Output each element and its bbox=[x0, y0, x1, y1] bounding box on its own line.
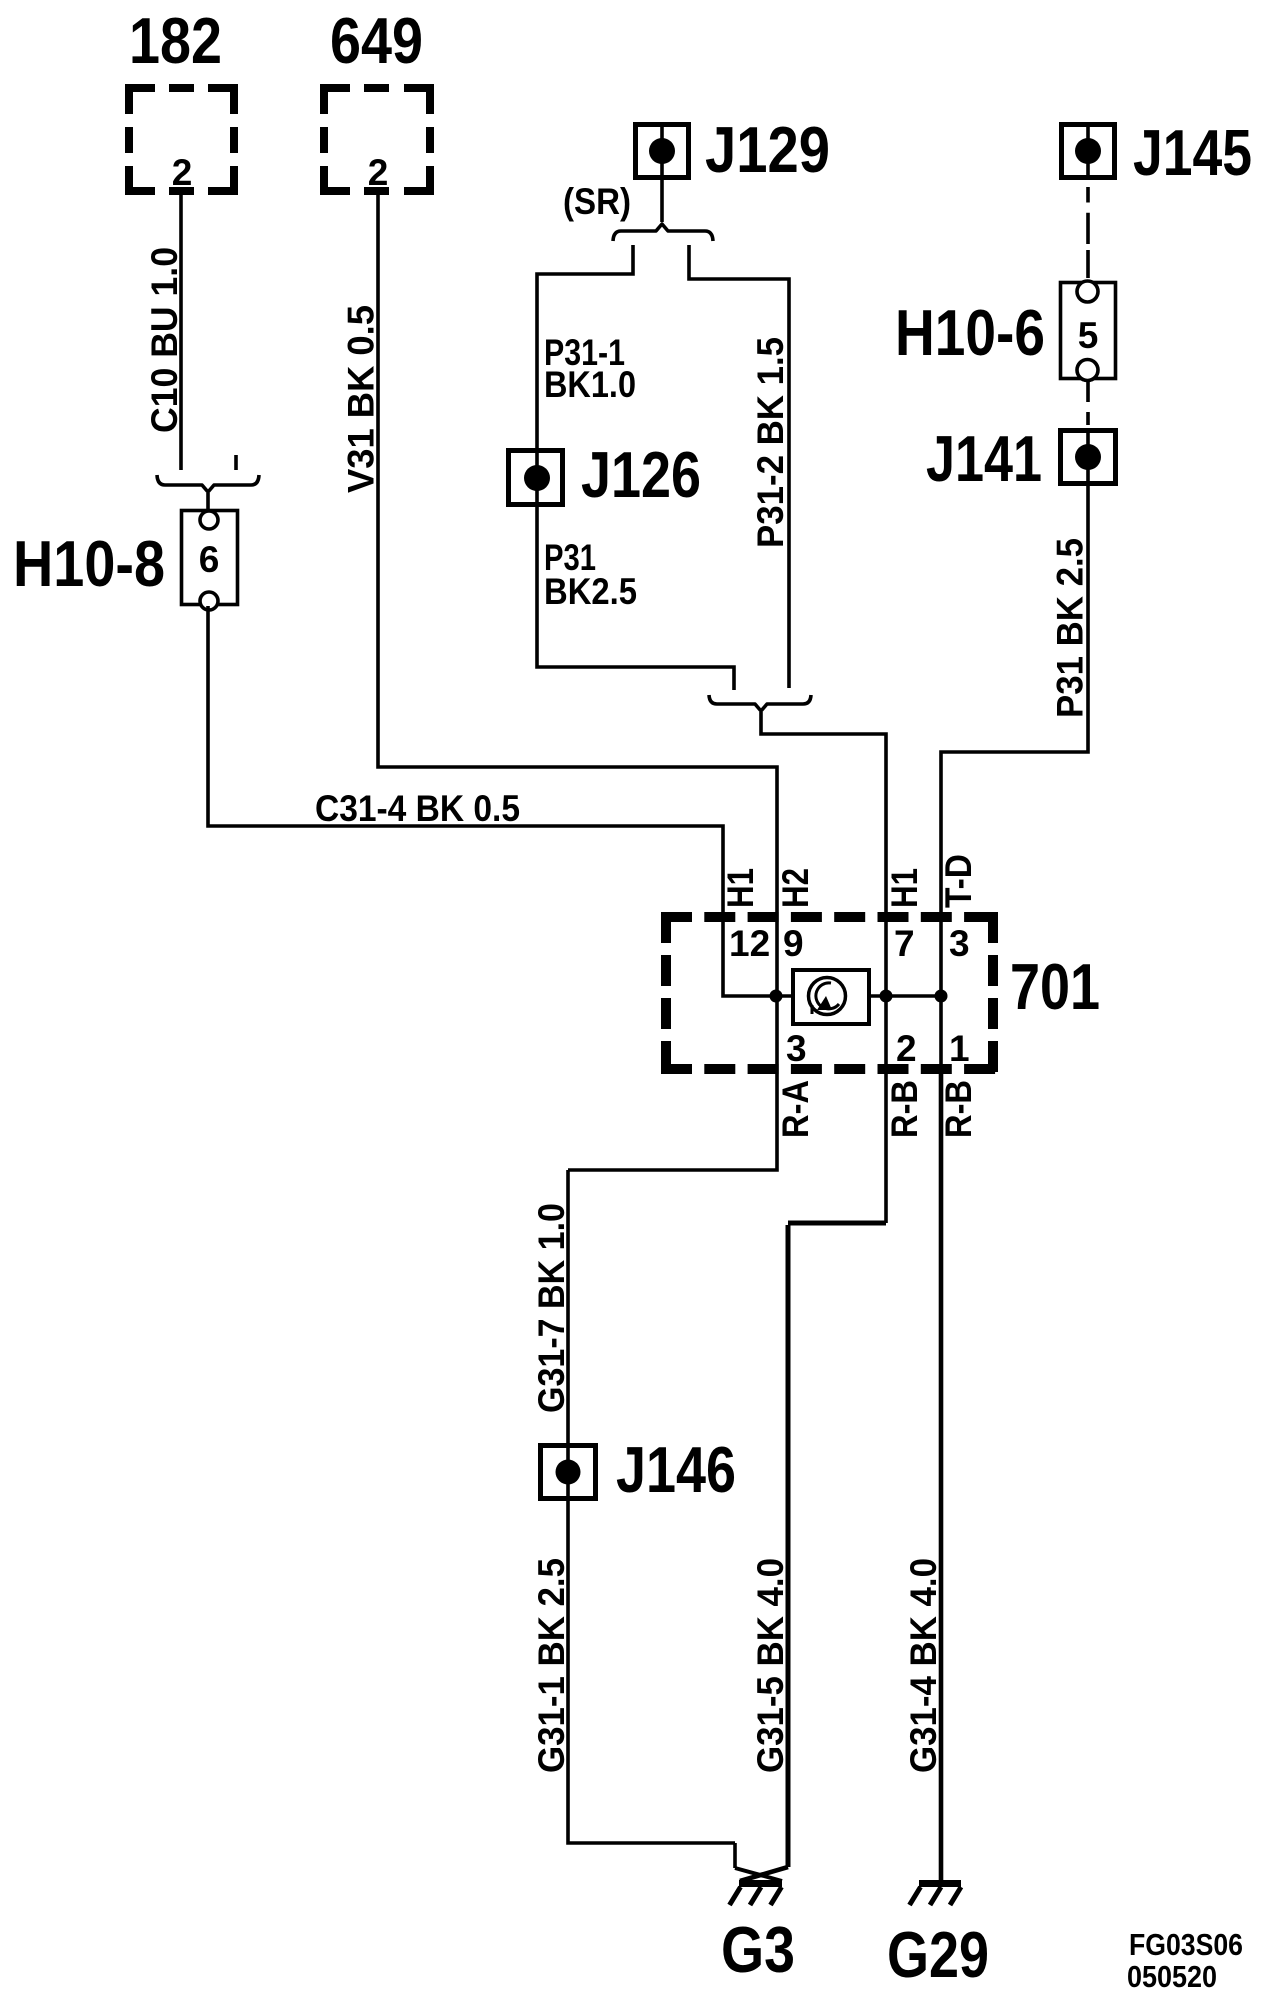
svg-text:T-D: T-D bbox=[938, 854, 979, 908]
splice brace below J129 bbox=[613, 224, 713, 241]
splice J146 dot bbox=[556, 1460, 581, 1485]
connector J141 wire through bbox=[941, 428, 1088, 912]
svg-text:J129: J129 bbox=[705, 113, 830, 186]
connector J145 dot bbox=[1075, 138, 1101, 164]
pin number 7 bbox=[894, 923, 915, 964]
svg-text:BK2.5: BK2.5 bbox=[544, 571, 637, 612]
splice J126 box bbox=[509, 451, 563, 505]
svg-text:G29: G29 bbox=[887, 1918, 989, 1991]
pin label R-A bbox=[775, 1080, 816, 1138]
unit 701 label bbox=[1010, 950, 1100, 1023]
svg-text:H10-8: H10-8 bbox=[13, 527, 165, 600]
fuse H10-8 label bbox=[13, 527, 165, 600]
splice J126 dot bbox=[524, 465, 550, 491]
splice brace above H10-8 bbox=[157, 475, 259, 511]
fuse H10-6 pin number 5 bbox=[1078, 315, 1099, 356]
fuse H10-6 box bbox=[1061, 281, 1116, 381]
junction dot right of lamp bbox=[880, 990, 893, 1003]
svg-text:649: 649 bbox=[330, 4, 423, 77]
svg-text:6: 6 bbox=[199, 539, 220, 580]
pin number 3 bottom bbox=[786, 1028, 807, 1069]
wire label G31-5 BK 4.0 bbox=[750, 1558, 791, 1773]
connector 182 label bbox=[129, 4, 222, 77]
connector 649 dashed box bbox=[324, 88, 430, 191]
unit 701 dashed box bbox=[661, 912, 998, 1074]
svg-text:701: 701 bbox=[1010, 950, 1100, 1023]
pin number 12 bbox=[729, 923, 770, 964]
wire pin 12 to lamp bbox=[723, 912, 776, 996]
dashed wire H10-6 to J141 bbox=[1086, 380, 1090, 425]
svg-text:12: 12 bbox=[729, 923, 770, 964]
junction dot left of lamp bbox=[770, 990, 783, 1003]
wire pin 9 through box bbox=[775, 912, 779, 1074]
wire label V31 BK 0.5 bbox=[341, 305, 382, 493]
splice J129 label bbox=[705, 113, 830, 186]
connector J145 box bbox=[1062, 125, 1115, 178]
svg-text:(SR): (SR) bbox=[563, 181, 631, 222]
wire V31 BK 0.5 bbox=[378, 195, 777, 912]
svg-text:3: 3 bbox=[949, 923, 970, 964]
fuse H10-6 label bbox=[895, 296, 1045, 369]
pin label T-D bbox=[938, 854, 979, 908]
splice J129 wire through bbox=[660, 127, 664, 222]
stub wire entering splice brace at H10-8 bbox=[234, 455, 238, 470]
pin number 1 bottom bbox=[949, 1028, 970, 1069]
splice J129 box bbox=[636, 125, 689, 178]
svg-text:G31-4 BK 4.0: G31-4 BK 4.0 bbox=[903, 1558, 944, 1773]
wire label P31-1 BK 1.0 bbox=[544, 332, 636, 405]
svg-text:H1: H1 bbox=[720, 868, 761, 908]
svg-text:2: 2 bbox=[172, 152, 193, 193]
lamp symbol box bbox=[793, 970, 869, 1024]
wire P31-2 BK 1.5 bbox=[689, 245, 789, 688]
wire label P31 BK 2.5 right bbox=[1050, 538, 1091, 718]
wire P31-1 BK 1.0 bbox=[537, 245, 633, 448]
splice J146 label bbox=[616, 1433, 736, 1506]
svg-text:C10 BU 1.0: C10 BU 1.0 bbox=[144, 247, 185, 433]
pin number 9 bbox=[783, 923, 804, 964]
svg-text:J145: J145 bbox=[1133, 116, 1252, 189]
splice J129 dot bbox=[649, 138, 675, 164]
lamp feed wires inside 701 bbox=[776, 994, 941, 998]
svg-text:182: 182 bbox=[129, 4, 222, 77]
label (SR) bbox=[563, 181, 631, 222]
footer code FG03S06 bbox=[1129, 1927, 1243, 1962]
svg-text:G31-5 BK 4.0: G31-5 BK 4.0 bbox=[750, 1558, 791, 1773]
pin 2 of connector 182 bbox=[172, 152, 193, 193]
wire label G31-7 BK 1.0 bbox=[531, 1203, 572, 1413]
wire pin 3 top through box bbox=[939, 912, 943, 1074]
wire G31-4 BK 4.0 bbox=[939, 1074, 944, 1881]
svg-text:2: 2 bbox=[368, 152, 389, 193]
pin label R-B right bbox=[938, 1080, 979, 1138]
splice brace above 701 bbox=[709, 695, 886, 912]
connector J145 wire through bbox=[1086, 127, 1090, 180]
svg-text:5: 5 bbox=[1078, 315, 1099, 356]
wire label G31-1 BK 2.5 bbox=[531, 1558, 572, 1773]
svg-text:050520: 050520 bbox=[1127, 1959, 1217, 1994]
svg-text:V31 BK 0.5: V31 BK 0.5 bbox=[341, 305, 382, 493]
fuse H10-8 box bbox=[182, 511, 238, 611]
svg-text:3: 3 bbox=[786, 1028, 807, 1069]
wire label P31-2 BK 1.5 bbox=[750, 337, 791, 548]
wire R-A to J146 bbox=[568, 1074, 777, 1170]
svg-text:H10-6: H10-6 bbox=[895, 296, 1045, 369]
connector J141 dot bbox=[1075, 444, 1101, 470]
connector J145 label bbox=[1133, 116, 1252, 189]
svg-text:BK1.0: BK1.0 bbox=[544, 364, 636, 405]
pin label H1 right bbox=[884, 868, 925, 908]
svg-text:J146: J146 bbox=[616, 1433, 736, 1506]
pin number 3 top bbox=[949, 923, 970, 964]
svg-text:G3: G3 bbox=[721, 1913, 795, 1986]
wire G31-1 diagonal into ground G3 bbox=[735, 1868, 782, 1881]
wire label C31-4 BK 0.5 bbox=[315, 788, 520, 829]
ground G29 symbol bbox=[910, 1884, 962, 1906]
connector 649 label bbox=[330, 4, 423, 77]
svg-text:H1: H1 bbox=[884, 868, 925, 908]
wire pin2 R-B down bbox=[788, 1074, 886, 1223]
svg-text:1: 1 bbox=[949, 1028, 970, 1069]
svg-text:7: 7 bbox=[894, 923, 915, 964]
pin label R-B middle bbox=[884, 1080, 925, 1138]
wire C31-4 BK 0.5 bbox=[208, 606, 723, 912]
connector J141 label bbox=[926, 422, 1042, 495]
svg-text:G31-7 BK 1.0: G31-7 BK 1.0 bbox=[531, 1203, 572, 1413]
wire label G31-4 BK 4.0 bbox=[903, 1558, 944, 1773]
dashed wire J145 to H10-6 bbox=[1086, 187, 1090, 278]
wire label C10 BU 1.0 bbox=[144, 247, 185, 433]
ground G3 label bbox=[721, 1913, 795, 1986]
junction dot far right of lamp bbox=[935, 990, 948, 1003]
svg-text:FG03S06: FG03S06 bbox=[1129, 1927, 1243, 1962]
connector 182 dashed box bbox=[129, 88, 234, 191]
svg-text:R-A: R-A bbox=[775, 1080, 816, 1138]
ground G3 symbol bbox=[730, 1884, 783, 1906]
footer date 050520 bbox=[1127, 1959, 1217, 1994]
pin label H2 bbox=[775, 868, 816, 908]
svg-text:G31-1 BK 2.5: G31-1 BK 2.5 bbox=[531, 1558, 572, 1773]
svg-text:R-B: R-B bbox=[884, 1080, 925, 1138]
wire pin 7 through box bbox=[884, 912, 888, 1074]
lamp symbol circle bbox=[809, 978, 846, 1015]
pin 2 of connector 649 bbox=[368, 152, 389, 193]
wire G31-5 BK 4.0 bbox=[740, 1225, 788, 1881]
svg-text:C31-4 BK 0.5: C31-4 BK 0.5 bbox=[315, 788, 520, 829]
svg-text:P31-2 BK 1.5: P31-2 BK 1.5 bbox=[750, 337, 791, 548]
pin label H1 bbox=[720, 868, 761, 908]
fuse H10-8 pin number 6 bbox=[199, 539, 220, 580]
ground G29 label bbox=[887, 1918, 989, 1991]
splice J126 wire through bbox=[537, 448, 734, 690]
wire G31-7 BK 1.0 bbox=[568, 1170, 735, 1868]
wire label P31 BK 2.5 below J126 bbox=[544, 537, 637, 612]
wire C10 BU 1.0 bbox=[179, 195, 183, 470]
svg-text:R-B: R-B bbox=[938, 1080, 979, 1138]
svg-text:2: 2 bbox=[896, 1028, 917, 1069]
pin number 2 bottom bbox=[896, 1028, 917, 1069]
svg-text:J126: J126 bbox=[581, 438, 701, 511]
svg-text:P31 BK 2.5: P31 BK 2.5 bbox=[1050, 538, 1091, 718]
svg-text:H2: H2 bbox=[775, 868, 816, 908]
svg-text:9: 9 bbox=[783, 923, 804, 964]
splice J146 box bbox=[541, 1446, 596, 1499]
connector J141 box bbox=[1061, 431, 1116, 484]
splice J126 label bbox=[581, 438, 701, 511]
svg-text:J141: J141 bbox=[926, 422, 1042, 495]
